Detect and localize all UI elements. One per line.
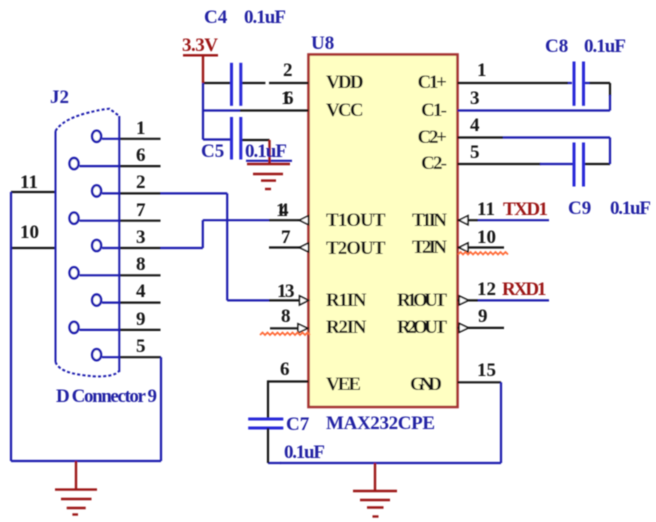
svg-text:TXD1: TXD1 [503,199,548,220]
svg-text:3.3V: 3.3V [182,35,218,56]
svg-text:0.1uF: 0.1uF [284,442,325,463]
svg-text:T2IN: T2IN [412,237,447,258]
svg-text:VCC: VCC [326,100,364,121]
svg-text:U8: U8 [311,33,334,54]
svg-text:R2IN: R2IN [326,317,367,338]
svg-text:T2OUT: T2OUT [326,238,386,259]
svg-text:C2-: C2- [421,153,447,174]
svg-text:3: 3 [470,88,480,109]
svg-text:1: 1 [477,60,487,81]
svg-text:1: 1 [136,118,146,139]
svg-text:10: 10 [477,227,496,248]
svg-text:MAX232CPE: MAX232CPE [326,413,435,434]
svg-text:12: 12 [477,279,496,300]
svg-text:6: 6 [136,145,146,166]
svg-text:VEE: VEE [326,374,361,395]
svg-text:0.1uF: 0.1uF [244,7,286,28]
svg-text:10: 10 [20,222,39,243]
svg-text:2: 2 [283,60,293,81]
svg-text:5: 5 [470,142,480,163]
svg-text:9: 9 [136,309,146,330]
svg-text:15: 15 [477,360,496,381]
svg-text:C1+: C1+ [418,72,448,93]
svg-text:C2+: C2+ [418,127,448,148]
svg-text:11: 11 [477,199,495,220]
svg-text:R1IN: R1IN [326,290,367,311]
svg-text:C7: C7 [286,414,310,435]
svg-text:C4: C4 [204,7,228,28]
svg-text:T1IN: T1IN [412,210,447,231]
svg-text:9: 9 [478,306,488,327]
svg-text:8: 8 [136,254,146,275]
svg-text:7: 7 [136,200,146,221]
svg-text:6: 6 [280,359,290,380]
svg-text:11: 11 [20,172,38,193]
svg-text:16: 16 [281,88,294,109]
svg-text:0.1uF: 0.1uF [610,198,651,219]
svg-text:2: 2 [136,172,146,193]
svg-text:14: 14 [276,200,289,221]
svg-text:8: 8 [281,306,291,327]
svg-text:C1-: C1- [421,100,447,121]
svg-text:13: 13 [277,281,295,302]
svg-text:T1OUT: T1OUT [326,210,386,231]
svg-text:3: 3 [136,227,146,248]
svg-text:R2OUT: R2OUT [397,317,447,338]
svg-text:C9: C9 [568,198,591,219]
svg-text:C8: C8 [545,36,568,57]
svg-text:VDD: VDD [326,72,364,93]
svg-text:7: 7 [281,227,291,248]
svg-text:4: 4 [136,281,146,302]
svg-text:0.1uF: 0.1uF [584,36,626,57]
svg-text:4: 4 [470,115,480,136]
svg-text:0.1uF: 0.1uF [245,141,287,162]
svg-text:D Connector 9: D Connector 9 [56,386,157,407]
svg-text:5: 5 [136,336,146,357]
svg-text:GND: GND [410,374,442,395]
svg-text:J2: J2 [50,87,69,108]
svg-text:RXD1: RXD1 [502,279,547,300]
svg-text:C5: C5 [201,141,224,162]
svg-text:R1OUT: R1OUT [397,290,447,311]
